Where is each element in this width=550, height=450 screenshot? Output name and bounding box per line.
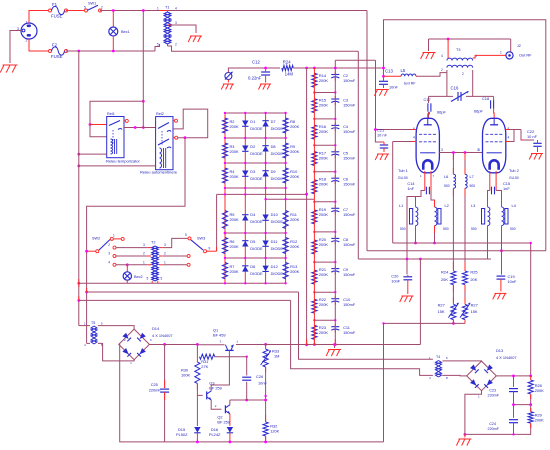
svg-text:9: 9 (209, 247, 211, 251)
svg-text:D7: D7 (271, 119, 276, 124)
resistor R24 14M (282, 65, 294, 70)
wire R31 to Q1 base (215, 350, 230, 356)
transformer T4 (436, 361, 442, 378)
T2 pin3 row jog to SW3 contact (163, 238, 188, 247)
diode D9 (262, 171, 268, 177)
svg-text:1: 1 (164, 260, 166, 264)
svg-text:C25: C25 (151, 382, 158, 387)
svg-text:5: 5 (147, 277, 149, 281)
capacitor C9 150mF (331, 269, 339, 273)
vertical C21 riser from cap ladder top (375, 60, 377, 129)
svg-text:D6: D6 (250, 264, 255, 269)
ground C12 (265, 80, 267, 83)
svg-text:FUSE: FUSE (51, 14, 63, 19)
wire Rel2 coil to left rail 2 (79, 165, 156, 167)
svg-text:5: 5 (185, 233, 187, 237)
lamp Bec1 (112, 11, 114, 28)
svg-text:2: 2 (175, 43, 177, 47)
resistor R23 200K (312, 325, 317, 339)
svg-text:2: 2 (108, 243, 110, 247)
svg-text:150mF: 150mF (343, 155, 356, 160)
svg-text:200K: 200K (319, 272, 328, 277)
matrix gap wire y=194.4 to ladder bus (217, 193, 306, 195)
wire L5 to T3 lower-left pin (418, 73, 446, 77)
svg-text:4 X 1N4007: 4 X 1N4007 (152, 333, 173, 338)
svg-text:L3: L3 (471, 203, 475, 208)
svg-text:Releu automentinere: Releu automentinere (140, 170, 178, 175)
svg-text:2: 2 (462, 72, 464, 76)
transformer T5 (91, 326, 97, 344)
wire tube2 right leg to L4 (496, 191, 501, 208)
svg-text:20K: 20K (470, 277, 477, 282)
T2 pin2 row to SW3 terminal (163, 255, 187, 257)
resistor R19 200K (312, 210, 317, 224)
mains plug P1 (17, 21, 37, 43)
Tub1 cathode legs and C14 (424, 171, 426, 191)
trimmer R27b 15K (464, 285, 466, 303)
SW2 row terminals to T2 (113, 246, 116, 249)
svg-text:C12: C12 (252, 60, 260, 65)
ground bottom right (464, 433, 467, 436)
capacitor C19 10nF (501, 251, 503, 275)
wire T1 pin2 east at y=51.3 (168, 46, 359, 51)
svg-text:T1: T1 (165, 6, 169, 10)
diode D11 (262, 241, 268, 247)
capacitor C7 150mF (331, 208, 339, 212)
svg-text:5: 5 (161, 277, 163, 281)
matrix junction dots (224, 112, 226, 114)
svg-text:200K: 200K (319, 212, 328, 217)
svg-text:14M: 14M (285, 72, 294, 77)
wire R28 to R29 (530, 394, 532, 412)
svg-text:200K: 200K (230, 174, 239, 179)
svg-text:3: 3 (164, 243, 166, 247)
capacitor C21 10 nF (375, 130, 381, 143)
inductor L2 with core (435, 207, 437, 226)
wire Q3 collector to Q1 base node (211, 357, 229, 391)
ground C19 (493, 293, 507, 299)
svg-text:T2: T2 (151, 241, 155, 245)
resistor R18 200K (312, 180, 317, 194)
diode D6 (242, 266, 248, 272)
svg-text:200K: 200K (319, 103, 328, 108)
resistor R32 120K (263, 422, 268, 436)
svg-text:GU-50: GU-50 (398, 176, 408, 180)
capacitor C20 10nF (406, 259, 408, 275)
svg-text:200K: 200K (230, 217, 239, 222)
svg-text:D10: D10 (271, 212, 279, 217)
capacitor C10 150mF (331, 299, 339, 303)
svg-text:1: 1 (157, 7, 159, 11)
resistor R2 200K (222, 118, 227, 133)
variable capacitor C16 (429, 95, 454, 97)
ladder rung wire (314, 171, 335, 173)
ladder top cap wire to C21 riser (335, 59, 375, 61)
fuse F2 (49, 50, 52, 53)
svg-text:Bec2: Bec2 (134, 275, 143, 279)
svg-text:DIODE: DIODE (271, 219, 284, 224)
svg-text:Out RF: Out RF (519, 53, 532, 58)
wire Rel1 coil bottom to left rail (79, 153, 107, 155)
svg-text:FUSE: FUSE (51, 54, 63, 59)
ground C22 (529, 154, 543, 160)
svg-text:15K: 15K (471, 309, 478, 314)
wire Q2 collector up to node (229, 400, 231, 405)
wire F1 to SW1 (66, 10, 84, 12)
red lead accents (452, 262, 454, 271)
inductor L5 text RF (401, 74, 416, 76)
wire into Rel1 com pin (90, 124, 107, 126)
wire Q1 base node to C26 (229, 356, 246, 358)
svg-text:4: 4 (508, 136, 510, 140)
capacitor C5 150mF (331, 152, 339, 156)
svg-text:200K: 200K (319, 242, 328, 247)
svg-text:1: 1 (26, 21, 28, 25)
vertical x=290.6 to T4 bottom wire (291, 300, 433, 375)
svg-text:200K: 200K (290, 124, 299, 129)
svg-text:PL24Z: PL24Z (209, 432, 221, 437)
svg-text:150mF: 150mF (343, 242, 356, 247)
svg-text:2: 2 (101, 6, 103, 10)
lower mains wire to T1 pin5 (66, 50, 155, 52)
svg-text:5: 5 (157, 43, 159, 47)
svg-text:C24: C24 (489, 422, 496, 426)
capacitor C23 220mF (513, 376, 515, 387)
svg-text:10nF: 10nF (508, 279, 517, 284)
svg-text:D8: D8 (271, 144, 276, 149)
resistor R7 200K (222, 263, 227, 279)
ground trimmer (221, 84, 234, 90)
svg-text:200K: 200K (230, 244, 239, 249)
svg-text:200K: 200K (319, 129, 328, 134)
capacitor C13 10nF (382, 75, 385, 78)
bus B y=250.7 heater bus (367, 250, 546, 252)
resistor R21 200K (312, 270, 317, 284)
wire SW3 pole up to matrix (207, 250, 217, 252)
connector J2 Out RF (506, 52, 513, 59)
bottom bus T2 to matrix y=283.3 (79, 282, 286, 284)
svg-text:R24: R24 (441, 270, 449, 275)
bias bus y=323.4 (384, 322, 466, 324)
svg-text:2: 2 (143, 252, 145, 256)
resistor R15 200K (312, 99, 317, 113)
diode D1 (242, 121, 248, 127)
wire tube1 right leg down to L2 (431, 191, 435, 208)
wire Rel1 coil top feed (90, 125, 107, 137)
svg-text:C16: C16 (451, 86, 459, 91)
ladder rung wire (314, 261, 335, 263)
svg-text:Bec1: Bec1 (121, 30, 130, 34)
svg-text:R27: R27 (471, 303, 478, 308)
svg-text:220mF: 220mF (149, 388, 162, 393)
svg-text:D9: D9 (271, 169, 276, 174)
svg-text:200K: 200K (319, 78, 328, 83)
svg-text:SW2: SW2 (92, 237, 100, 241)
wire J2 feed from y=39 (510, 39, 512, 52)
svg-text:2: 2 (441, 68, 443, 72)
svg-text:L7: L7 (470, 174, 474, 179)
svg-text:1: 1 (500, 51, 502, 55)
capacitor C24 220mF (509, 420, 518, 423)
wire bridge D13 plus to R28 chain (496, 375, 530, 377)
svg-text:1nF: 1nF (407, 186, 414, 191)
resistor R28 200K (528, 380, 533, 394)
matrix rail y=113 (225, 112, 286, 114)
relay Rel2 (156, 117, 173, 170)
capacitor C4 150mF (331, 125, 339, 128)
rail segment ladder to T4 riser (236, 344, 420, 346)
svg-text:150mF: 150mF (343, 302, 356, 307)
vertical x=383.5 loop down to bottom bus (383, 323, 385, 442)
resistor R24 20K grid leak (452, 188, 454, 269)
diode D8 (262, 146, 268, 152)
svg-text:2: 2 (164, 252, 166, 256)
capacitor C18 66pF (493, 96, 495, 100)
resistor R5 200K (222, 211, 227, 229)
matrix rail y=163 (225, 162, 286, 164)
svg-text:T5: T5 (91, 321, 95, 325)
ladder left column wire (313, 68, 315, 345)
node lamp top (112, 9, 115, 12)
wire Q3 emitter to Q2 base (211, 400, 221, 409)
svg-text:200K: 200K (319, 302, 328, 307)
svg-text:GU-50: GU-50 (509, 176, 519, 180)
ladder rung wire (314, 319, 335, 321)
svg-text:C23: C23 (489, 389, 496, 393)
transformer T1 (164, 12, 171, 44)
wire to Rel1 switch common (90, 101, 143, 124)
relay Rel1 (107, 117, 124, 158)
svg-text:150mF: 150mF (343, 103, 356, 108)
ground C21 (375, 154, 389, 160)
svg-text:Tub 1: Tub 1 (398, 168, 408, 173)
resistor R8 200K (283, 118, 288, 133)
svg-text:F2: F2 (52, 43, 58, 48)
resistor R9 200K (283, 143, 288, 158)
wire SW1 to T1 pin1 (top wire) (100, 10, 160, 12)
svg-text:J2: J2 (517, 44, 521, 48)
inductor L4 with core (502, 207, 504, 226)
bus y=300.4 (79, 299, 291, 301)
svg-text:10nF: 10nF (389, 85, 398, 90)
capacitor C2 150mF (331, 75, 339, 79)
wire T1 pin3 to ground (171, 25, 196, 33)
resistor R10 200K (283, 168, 288, 183)
diode D4 (242, 215, 248, 221)
svg-text:D11: D11 (271, 239, 278, 244)
capacitor C22 10 nF (521, 130, 534, 141)
RF ground top (428, 39, 430, 51)
vacuum tube Tub 1 (416, 118, 439, 173)
wire tube2 left leg to L3 (488, 191, 490, 208)
svg-text:D14: D14 (152, 326, 160, 331)
wire L4 bottom to bus B (501, 226, 503, 251)
resistor R31 27K (196, 345, 198, 357)
matrix rail y=233 (225, 232, 286, 234)
resistor R25 20K grid leak (464, 188, 466, 269)
svg-text:150mF: 150mF (343, 212, 356, 217)
trimmer capacitor input (225, 73, 232, 80)
wire T4 bottom-right to bridge left (443, 374, 468, 377)
svg-text:DIODE: DIODE (271, 271, 284, 276)
svg-text:200K: 200K (290, 174, 299, 179)
svg-text:Tub 2: Tub 2 (509, 168, 519, 173)
svg-text:R24: R24 (283, 60, 291, 65)
svg-text:500: 500 (443, 227, 449, 231)
zener D16 PL24Z (227, 427, 233, 433)
svg-text:200K: 200K (535, 388, 544, 393)
vacuum tube Tub 2 (483, 118, 506, 173)
svg-text:4 X 1N4007: 4 X 1N4007 (496, 355, 517, 360)
ground C20 (400, 296, 414, 302)
svg-text:1: 1 (143, 260, 145, 264)
svg-text:R25: R25 (470, 270, 477, 275)
svg-text:DIODE: DIODE (250, 176, 263, 181)
wire L3 bottom to bus C corner (488, 226, 491, 259)
svg-text:4: 4 (175, 7, 177, 11)
svg-text:DIODE: DIODE (271, 126, 284, 131)
vertical x=143.3 from top wire to relays (142, 11, 144, 128)
svg-text:500: 500 (510, 227, 516, 231)
svg-text:DIODE: DIODE (250, 246, 263, 251)
svg-text:0.22nF: 0.22nF (248, 76, 262, 81)
svg-text:C18: C18 (482, 96, 489, 101)
matrix wire y=199.2 to ladder rung (266, 198, 315, 200)
svg-text:220mF: 220mF (488, 394, 500, 398)
svg-text:F1: F1 (52, 2, 58, 7)
bridge rectifier D13 4 X 1N4007 (467, 361, 497, 391)
svg-text:1nF: 1nF (503, 186, 510, 191)
svg-text:D2: D2 (250, 144, 255, 149)
heater riser x=367 down to bus B (366, 11, 368, 251)
diode D7 (262, 121, 268, 127)
svg-text:3: 3 (108, 252, 110, 256)
bridge rectifier D14 4 X 1N4007 (119, 329, 150, 360)
wire plug pin3 to ground (10, 31, 22, 64)
resistor R6 200K (222, 238, 227, 254)
diode D5 (242, 241, 248, 247)
wire y=39 T3 primary top feed (429, 38, 511, 40)
inductor L7 (464, 153, 466, 175)
svg-text:DIODE: DIODE (250, 151, 263, 156)
svg-text:DIODE: DIODE (271, 176, 284, 181)
ground symbol on common rail (334, 345, 336, 349)
wire T1 pin4 along top to heater drop (168, 10, 368, 12)
bus C y=259 screen bus (358, 258, 491, 260)
vertical rail x=78.8 (78, 51, 80, 326)
transformer T2 (152, 246, 159, 281)
matrix rail y=258 (225, 257, 286, 259)
svg-text:D12: D12 (271, 264, 278, 269)
capacitor C12 0.22nF (264, 67, 267, 70)
vertical x=420.4 to T4 top feed (419, 259, 421, 345)
ladder cap column wire (334, 68, 336, 345)
vertical left rail x=78.8 dots (77, 153, 80, 156)
svg-text:Rel2: Rel2 (156, 112, 164, 116)
wire plug pin2 to F2 (29, 39, 48, 51)
trimmer R27 15K (452, 285, 454, 303)
capacitor C25 220mF (164, 344, 166, 388)
svg-text:3: 3 (175, 21, 177, 25)
vertical x=298.5 to T4 top wire (299, 292, 433, 359)
svg-text:200K: 200K (290, 244, 299, 249)
matrix rail y=138 (225, 137, 286, 139)
wire L2 bottom to bus A (434, 226, 436, 243)
Rel2 NC pin circle (173, 120, 175, 122)
matrix rail y=188 (225, 187, 286, 189)
bus A y=243 to bottom right supply (393, 243, 531, 376)
capacitor C8 150mF (331, 238, 339, 242)
resistor R11 200K (283, 211, 288, 229)
svg-text:DIODE: DIODE (271, 246, 284, 251)
wire plug pin1 to F1 (29, 11, 48, 24)
resistor R14 200K (312, 73, 317, 87)
svg-text:L5: L5 (401, 68, 406, 73)
resistor R4 200K (222, 168, 227, 183)
capacitor C17 66pF (428, 96, 430, 103)
svg-text:T3: T3 (456, 48, 460, 52)
wire left rail to T5 top-left (79, 325, 90, 327)
ladder rung wire (314, 144, 335, 146)
svg-text:500: 500 (400, 227, 406, 231)
svg-text:Releu temporizator: Releu temporizator (106, 159, 140, 164)
svg-text:D1: D1 (250, 119, 255, 124)
resistor R3 200K (222, 143, 227, 158)
svg-text:15K: 15K (438, 309, 445, 314)
switch SW1 (85, 9, 88, 12)
wire lamp bottom to lower wire (112, 36, 114, 51)
matrix left rail (224, 113, 226, 283)
wire Q1 emitter to rail right (236, 344, 307, 346)
vertical x=392.7 tube1 pin4 to bus A (392, 142, 394, 244)
wire Rel2 NO to SW2 pole rail (87, 138, 185, 344)
zener D15 PL50Z (196, 395, 198, 426)
wire T5 bottom-right to bridge bottom (98, 343, 134, 361)
wire R29 to ground bus corner (465, 423, 531, 434)
svg-text:SW3: SW3 (197, 237, 205, 241)
T2 right stubs (159, 247, 163, 249)
svg-text:DIODE: DIODE (250, 126, 263, 131)
svg-text:DIODE: DIODE (250, 219, 263, 224)
wire R33 to R32 (265, 367, 267, 422)
ladder left bus x=306.6 (306, 68, 308, 345)
resistor R16 200K (312, 125, 317, 139)
svg-text:SW1: SW1 (88, 2, 96, 6)
ladder rung wire (314, 201, 335, 203)
matrix diode column 1 (244, 113, 246, 283)
resistor R17 200K (312, 152, 317, 166)
svg-text:L2: L2 (445, 203, 449, 208)
svg-text:DIODE: DIODE (271, 151, 284, 156)
svg-text:D4: D4 (250, 212, 256, 217)
svg-text:3: 3 (477, 148, 479, 152)
svg-text:3: 3 (441, 148, 443, 152)
T2 pin1 row to SW3 terminal (163, 264, 187, 266)
svg-text:L6: L6 (444, 174, 448, 179)
svg-text:1: 1 (113, 234, 115, 238)
Rel1 NC pin circle (124, 120, 125, 122)
ladder rung wire (314, 231, 335, 233)
svg-text:500: 500 (471, 227, 477, 231)
fuse F1 (49, 9, 52, 12)
svg-text:20K: 20K (441, 277, 448, 282)
wire Q2 emitter to D16 (229, 414, 231, 426)
wire T3 upper-right to J2 (473, 55, 506, 58)
svg-text:150mF: 150mF (343, 182, 356, 187)
svg-text:150mF: 150mF (343, 129, 356, 134)
resistor R30 100K (195, 362, 200, 383)
resistor R20 200K (312, 240, 317, 254)
